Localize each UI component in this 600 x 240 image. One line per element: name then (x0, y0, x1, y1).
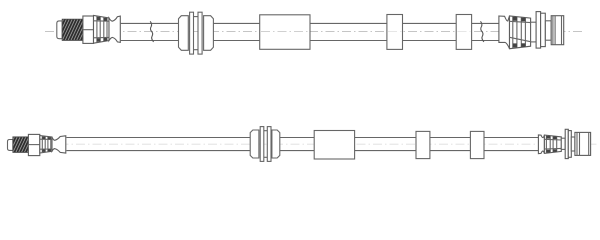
bottom left ferrule crimp rib 2 (48, 137, 51, 152)
top right cap rib lines (553, 16, 562, 45)
bottom band 2 (470, 131, 484, 158)
bottom hose centerline (10, 143, 597, 145)
bottom grommet: groove (264, 131, 268, 158)
top hose tube segment 1 (121, 23, 179, 40)
top hose break mark 2 (481, 21, 484, 42)
top band 2 (456, 15, 471, 50)
top right fitting: neck 2 (545, 21, 551, 40)
bottom right ferrule crimp rib 1 (546, 135, 550, 153)
bottom right flange rear plate (568, 131, 571, 158)
top left fitting: hex nut (83, 16, 94, 43)
bottom protective sleeve rectangle (314, 131, 354, 160)
top sleeve centerline inside (261, 31, 309, 33)
bottom left fitting: male tip (8, 140, 13, 151)
bottom hose tube segment 3 (355, 138, 416, 151)
bottom left fitting: threaded section (13, 137, 29, 153)
top right flange rear plate (541, 13, 546, 46)
bottom right ferrule inner lines (544, 139, 561, 149)
bottom left fitting: crimp ferrule (40, 136, 52, 153)
bottom grommet: right block (272, 130, 280, 158)
top left fitting: rubber bell (109, 16, 120, 42)
bottom right ferrule crimp rib 2 (553, 136, 557, 153)
top right fitting: flange (536, 12, 541, 49)
bottom left fitting: rubber bell (52, 136, 66, 153)
bottom left ferrule inner lines (40, 139, 52, 149)
top left fitting: threaded section (62, 19, 83, 40)
top right ferrule inner lines (510, 21, 531, 41)
top left ferrule inner lines (94, 21, 110, 38)
top right fitting: neck (531, 22, 537, 42)
top right ferrule crimp rib 1 (513, 16, 517, 48)
top hose tube segment 4 (403, 23, 457, 40)
top grommet: rib 2 (198, 12, 202, 54)
bottom left fitting: hex nut (28, 134, 39, 155)
bottom grommet: left block (250, 130, 259, 158)
top grommet: groove (194, 17, 199, 50)
bottom left ferrule crimp rib 1 (42, 136, 45, 152)
bottom right fitting: neck (561, 138, 565, 149)
top protective sleeve rectangle (260, 15, 310, 50)
top left ferrule crimp rib 2 (104, 17, 107, 41)
bottom right fitting: flange (565, 129, 568, 158)
bottom hose tube segment 5 (484, 138, 538, 151)
top left fitting: hex midline (83, 29, 94, 31)
bottom left fitting: hex midline (28, 144, 39, 146)
top left fitting: male tip (57, 21, 62, 39)
bottom right cap rib lines (577, 132, 589, 155)
top band centerline traces (388, 31, 471, 33)
bottom hose tube segment 1 (66, 138, 250, 151)
bottom hose tube segment 2 (280, 138, 314, 151)
bottom grommet: rib 2 (267, 127, 271, 162)
top hose centerline (45, 31, 585, 33)
top right fitting: crimp ferrule (510, 16, 531, 49)
bottom band 1 (416, 131, 430, 158)
bottom right fitting: end cap (575, 132, 591, 155)
bottom hose tube segment 4 (430, 138, 471, 151)
top grommet: right block (204, 16, 214, 51)
top grommet: rib 1 (190, 12, 194, 54)
bottom right fitting: crimp ferrule (544, 135, 561, 153)
top grommet: left block (179, 16, 189, 51)
top right fitting: rubber bell (499, 16, 510, 49)
top right ferrule crimp rib 2 (521, 17, 525, 47)
top hose tube segment 5 (472, 23, 499, 40)
top hose tube segment 3 (310, 23, 387, 40)
top left fitting: crimp ferrule (94, 15, 110, 43)
top band 1 (387, 15, 403, 50)
bottom right fitting: rubber bell (538, 135, 544, 154)
top right fitting: end cap (551, 16, 564, 45)
bottom grommet: rib 1 (260, 127, 264, 162)
top left ferrule crimp rib 1 (97, 16, 100, 42)
bottom right fitting: neck 2 (571, 137, 575, 151)
top hose tube segment 2 (213, 23, 259, 40)
top hose break mark 1 (150, 21, 153, 42)
